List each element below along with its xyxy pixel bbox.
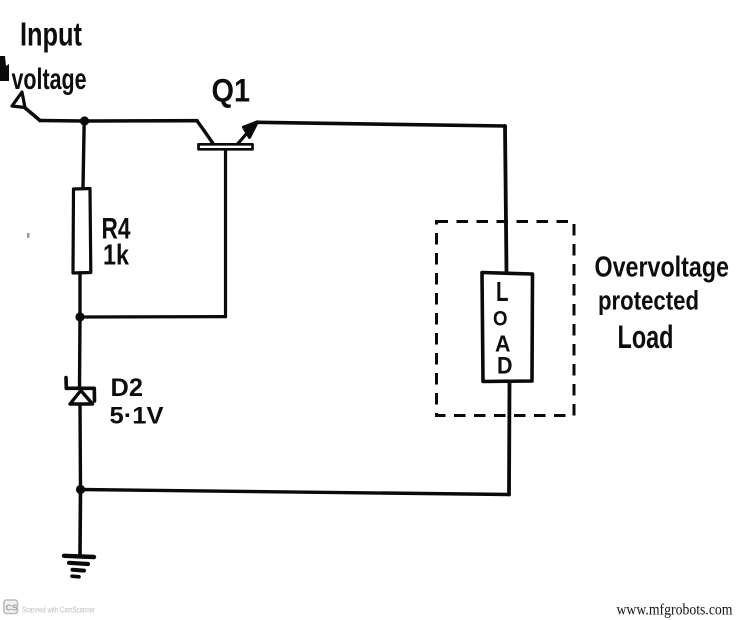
scan speck — [27, 233, 30, 238]
svg-text:Scanned with CamScanner: Scanned with CamScanner — [22, 606, 95, 615]
wire bottom horizontal — [81, 490, 510, 495]
wire zener to bottom node — [78, 404, 82, 490]
transistor Q1 emitter arrowhead — [244, 122, 258, 138]
zener cathode bar — [66, 378, 95, 402]
wire node to base horizontal — [80, 315, 226, 319]
wire R4 to node — [78, 273, 81, 317]
ground — [64, 556, 94, 577]
wire to ground — [78, 490, 82, 557]
svg-text:www.mfgrobots.com: www.mfgrobots.com — [617, 602, 733, 619]
svg-text:Input: Input — [20, 16, 82, 53]
svg-text:1k: 1k — [103, 240, 130, 272]
wire base vertical — [224, 150, 227, 317]
svg-text:O: O — [493, 307, 508, 330]
CamScanner footer logo — [4, 600, 18, 614]
zener anode triangle — [70, 391, 93, 405]
node junction dot top — [80, 116, 89, 125]
wire top left — [40, 119, 197, 123]
svg-text:CS: CS — [6, 603, 18, 613]
svg-text:D2: D2 — [111, 374, 144, 402]
svg-text:Overvoltage: Overvoltage — [595, 252, 730, 284]
wire down to R4 — [83, 121, 84, 188]
dashed protected-load box — [437, 222, 575, 416]
transistor Q1 base bar — [199, 144, 253, 149]
wire right vertical upper — [505, 126, 507, 272]
wire top right — [257, 122, 505, 126]
node dot bottom — [76, 485, 85, 494]
resistor R4 — [73, 189, 91, 274]
input terminal arrow — [12, 92, 25, 108]
wire input lead — [24, 107, 40, 121]
transistor Q1 emitter lead — [238, 129, 251, 144]
svg-text:L: L — [496, 276, 509, 307]
svg-text:protected: protected — [598, 286, 699, 316]
transistor Q1 collector lead — [197, 121, 213, 144]
svg-text:5·1V: 5·1V — [110, 403, 164, 430]
load box — [482, 273, 533, 382]
wire load to bottom — [507, 382, 511, 495]
svg-text:Load: Load — [618, 319, 674, 355]
svg-text:Q1: Q1 — [212, 73, 251, 109]
node dot middle — [75, 312, 84, 321]
svg-text:D: D — [497, 352, 513, 379]
scan artifact blob left edge — [0, 56, 9, 81]
wire node to zener — [78, 317, 82, 388]
